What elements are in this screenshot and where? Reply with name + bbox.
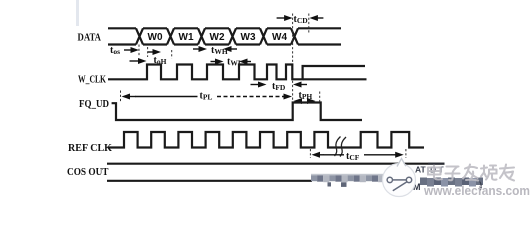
elecfans logo white circle with percent mark [383, 164, 416, 197]
tCD label, arrows and dashed ticks [277, 17, 289, 19]
svg-text:tCD: tCD [294, 14, 309, 25]
tWL label and arrows [211, 61, 220, 63]
svg-text:COS OUT: COS OUT [67, 167, 109, 178]
svg-text:REF CLK: REF CLK [68, 143, 113, 154]
svg-text:W3: W3 [241, 32, 256, 43]
long dashed vertical at FQ_UD rise [292, 14, 294, 101]
svg-text:DATA: DATA [78, 33, 102, 44]
dark blob band right [420, 178, 483, 187]
watermark chinese characters (stylized strokes) [428, 165, 514, 181]
svg-text:tWH: tWH [211, 45, 228, 56]
tCF measurement arrow with label [309, 149, 311, 158]
blurred pixelated censor blob [311, 174, 384, 182]
COS OUT upper line [107, 163, 445, 165]
COS OUT upper line visible through watermark [428, 163, 445, 165]
waveform break marks [335, 137, 341, 157]
svg-text:tPL: tPL [200, 91, 213, 102]
DATA bus waveform with crossovers [108, 27, 341, 29]
tPH label and arrows [298, 100, 300, 102]
svg-text:tFD: tFD [272, 81, 286, 92]
svg-text:FQ_UD: FQ_UD [79, 99, 109, 110]
svg-text:W4: W4 [272, 32, 287, 43]
svg-text:tos: tos [110, 45, 120, 56]
W_CLK waveform [108, 65, 365, 80]
tPL measurement arrow with label [120, 91, 122, 102]
REF CLK waveform [108, 132, 424, 148]
COS OUT lower line [107, 180, 312, 182]
svg-text:tCF: tCF [346, 151, 360, 162]
tWH label and arrows [193, 48, 203, 50]
svg-text:www.elecfans.com: www.elecfans.com [423, 183, 530, 198]
svg-text:AT: AT [415, 165, 427, 175]
faint scan edge strip [76, 0, 79, 26]
FQ_UD waveform [112, 103, 362, 121]
second setup arrow with tick [147, 47, 149, 57]
W_CLK continuing low line [303, 78, 367, 80]
svg-text:D T: D T [430, 165, 445, 175]
svg-text:W1: W1 [179, 32, 194, 43]
svg-text:W_CLK: W_CLK [78, 74, 107, 85]
tDH (toH) hold time label and arrow [130, 60, 143, 62]
tFD label and arrows [251, 84, 263, 86]
svg-text:W0: W0 [148, 32, 163, 43]
svg-text:W2: W2 [210, 32, 225, 43]
